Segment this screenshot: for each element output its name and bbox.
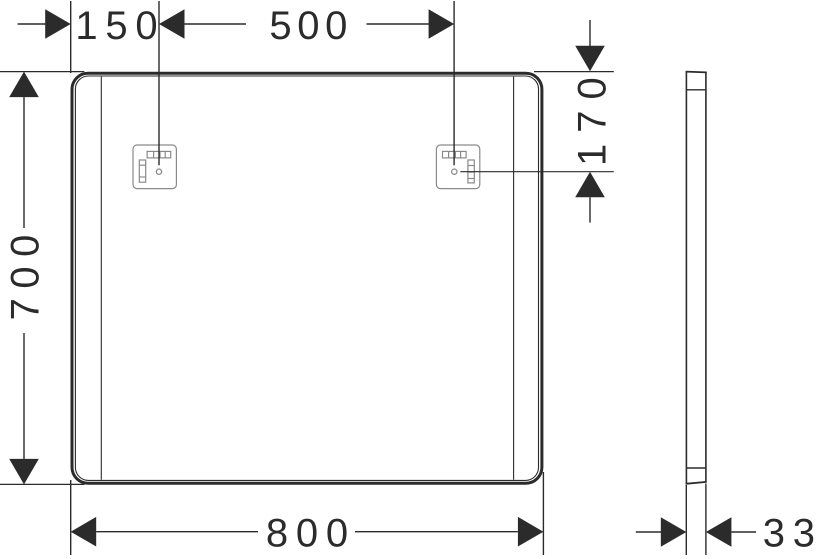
- mirror side view bottom rail line: [686, 467, 706, 469]
- dimension 150 left arrow: [18, 9, 71, 39]
- svg-text:700: 700: [4, 225, 48, 320]
- dimension 33 right arrow: [706, 517, 756, 547]
- svg-text:800: 800: [266, 511, 356, 555]
- dimension 33 left arrow: [636, 517, 687, 547]
- extension line side view left bottom: [685, 485, 687, 555]
- extension line mirror top edge right: [534, 71, 614, 73]
- dimension 150/500 shared arrow: [159, 9, 246, 39]
- mirror side view top edge: [686, 71, 707, 74]
- dimension 700 label: [4, 225, 48, 320]
- dimension 170 bottom arrow: [575, 172, 605, 223]
- svg-text:150: 150: [75, 4, 165, 48]
- mirror side view top rail line: [686, 89, 706, 91]
- mirror front view outer outline: [72, 73, 542, 483]
- mounting plate 2 right slot: [468, 160, 474, 183]
- dimension 800 label: [266, 511, 356, 555]
- mounting plate 2 screw hole: [452, 169, 457, 174]
- dimension 33 label: [763, 512, 819, 556]
- dimension 500 label: [269, 4, 353, 48]
- extension line mirror bottom edge left: [0, 483, 84, 485]
- svg-text:170: 170: [570, 66, 614, 166]
- extension line mirror right edge bottom: [542, 472, 544, 555]
- mounting plate 1 left slot: [139, 160, 145, 182]
- extension line plate 2 centre: [453, 1, 455, 165]
- extension line mirror left edge top: [70, 1, 72, 73]
- dimension 800 right arrow: [355, 517, 543, 547]
- dimension 700 bottom arrow: [9, 333, 39, 484]
- mounting plate 2 top terminal strip: [443, 151, 467, 158]
- extension line plate height right: [460, 171, 614, 173]
- mounting plate 2 body: [436, 145, 479, 189]
- mirror side view right edge: [705, 72, 707, 482]
- mirror side view left edge: [685, 72, 687, 484]
- mirror front view inner outline: [75, 76, 538, 480]
- dimension 150 label: [75, 4, 165, 48]
- extension line mirror top edge left: [0, 71, 84, 73]
- dimension 700 top arrow: [9, 72, 39, 228]
- mirror inner vertical line left: [100, 77, 102, 480]
- dimension 170 label: [570, 66, 614, 166]
- dimension 500 right arrow: [367, 9, 455, 39]
- dimension 800 left arrow: [71, 517, 258, 547]
- dimension 170 top arrow: [575, 20, 605, 71]
- mounting plate 1 top terminal strip: [147, 151, 171, 158]
- mounting plate 1 body: [133, 145, 176, 189]
- mounting plate 1 screw hole: [156, 169, 161, 174]
- svg-text:500: 500: [269, 4, 353, 48]
- extension line side view right bottom: [705, 484, 707, 556]
- mirror inner vertical line right: [513, 77, 515, 480]
- mirror side view bottom edge: [686, 482, 707, 484]
- svg-text:33: 33: [763, 512, 819, 556]
- extension line plate 1 centre: [158, 1, 160, 165]
- extension line mirror left edge bottom: [70, 480, 72, 555]
